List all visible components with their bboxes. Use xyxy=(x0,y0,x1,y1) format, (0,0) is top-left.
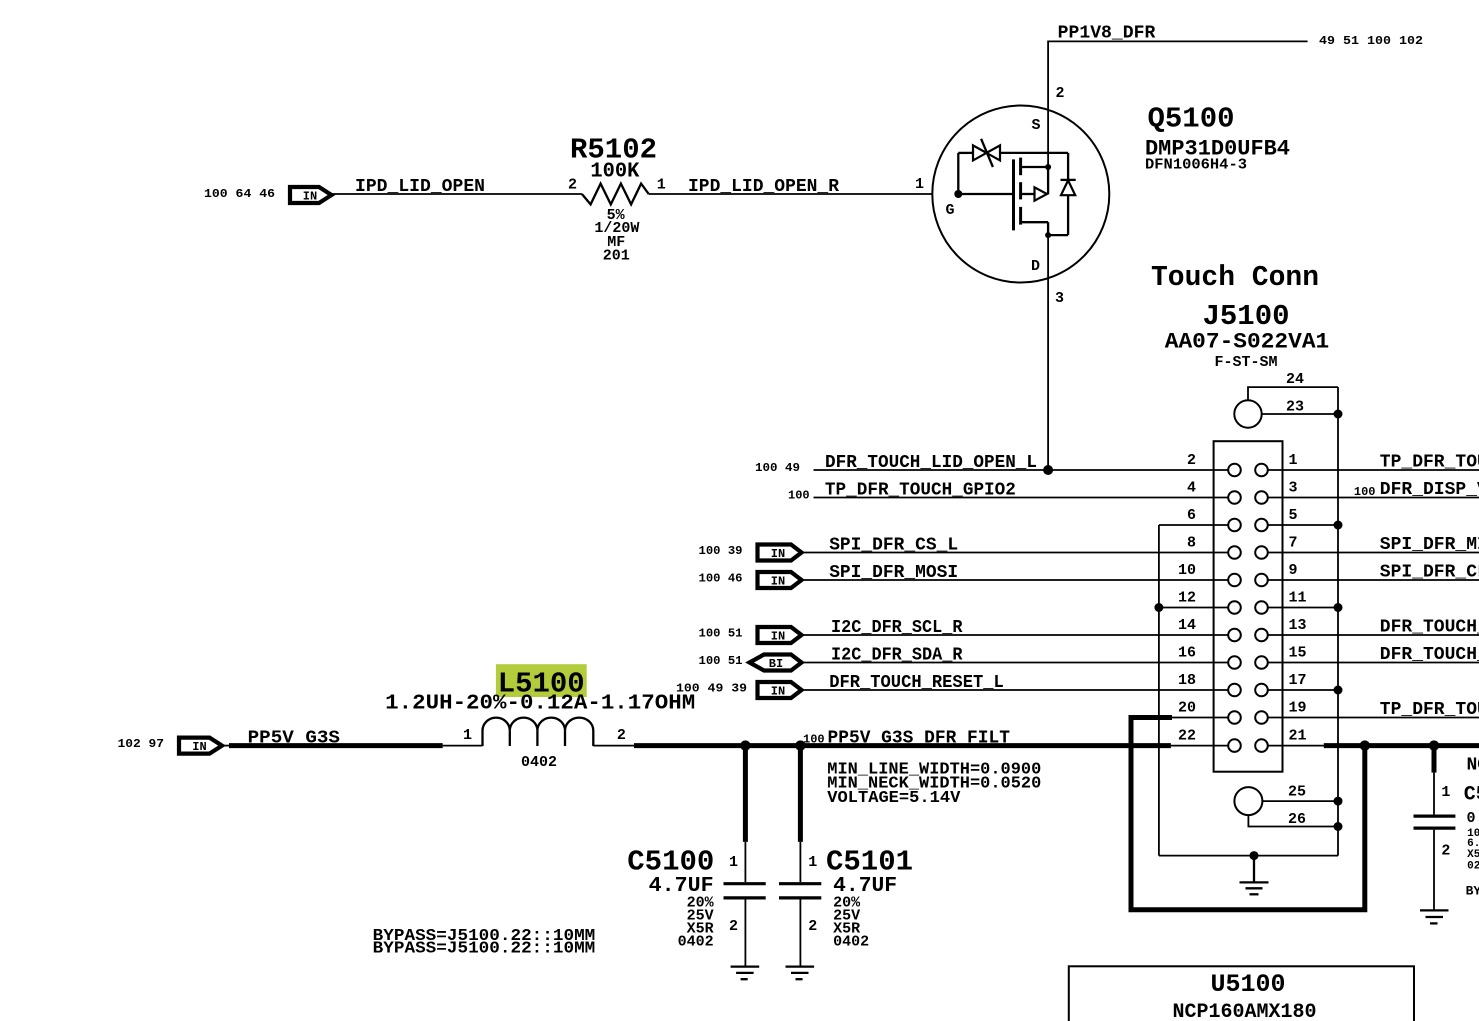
svg-text:TP_DFR_TOUC: TP_DFR_TOUC xyxy=(1380,453,1479,473)
junction pin12 xyxy=(1154,603,1163,612)
svg-text:22: 22 xyxy=(1178,728,1196,745)
branch wire thin xyxy=(744,842,746,882)
svg-text:6.3: 6.3 xyxy=(1467,838,1479,850)
branch wire thick xyxy=(1432,746,1437,773)
junction pin23 xyxy=(1334,410,1343,419)
wire pin 22 thin xyxy=(1171,745,1228,747)
svg-text:2: 2 xyxy=(617,727,626,744)
wire pin 1 TP_DFR_TOUCH xyxy=(1268,469,1479,471)
svg-text:24: 24 xyxy=(1286,371,1304,388)
svg-text:15: 15 xyxy=(1289,645,1307,662)
svg-text:U5100: U5100 xyxy=(1210,970,1285,999)
off-page connector IN (SPI_DFR_CS_L) xyxy=(758,545,802,562)
svg-text:18: 18 xyxy=(1178,672,1196,689)
branch wire thick xyxy=(743,746,748,842)
svg-text:0402: 0402 xyxy=(678,934,714,951)
wire pin 15 DFR_TOUCH xyxy=(1268,662,1479,664)
svg-text:S: S xyxy=(1032,117,1041,134)
svg-text:IN: IN xyxy=(192,740,206,754)
svg-text:D: D xyxy=(1031,258,1040,275)
svg-text:49 51 100 102: 49 51 100 102 xyxy=(1319,34,1423,48)
svg-text:NCP160AMX180: NCP160AMX180 xyxy=(1172,1001,1316,1021)
svg-text:DFR_TOUCH_LID_OPEN_L: DFR_TOUCH_LID_OPEN_L xyxy=(825,453,1037,473)
svg-text:G: G xyxy=(946,202,955,219)
svg-text:0.1: 0.1 xyxy=(1467,810,1479,827)
transistor Q5100 xyxy=(915,85,1109,307)
svg-text:11: 11 xyxy=(1289,590,1307,607)
body diode xyxy=(1067,153,1069,180)
svg-text:100: 100 xyxy=(788,489,810,503)
svg-text:IN: IN xyxy=(771,575,785,589)
junction C5102 xyxy=(1429,740,1439,750)
svg-text:23: 23 xyxy=(1286,399,1304,416)
svg-text:1: 1 xyxy=(1289,452,1298,469)
gate junction dot xyxy=(954,190,962,198)
svg-text:F-ST-SM: F-ST-SM xyxy=(1214,354,1277,371)
junction pin17 xyxy=(1334,686,1343,695)
wire PP5V_G3S thick xyxy=(222,745,235,747)
ground C5101 xyxy=(786,967,815,980)
svg-text:17: 17 xyxy=(1289,672,1307,689)
wire pin 10 SPI_DFR_MOSI xyxy=(802,579,1229,581)
left aux vertical wire (pins 6,12) xyxy=(1158,525,1160,856)
svg-text:IPD_LID_OPEN: IPD_LID_OPEN xyxy=(355,177,485,197)
svg-text:BI: BI xyxy=(769,657,783,671)
off-page connector IN (I2C_DFR_SCL_R) xyxy=(758,627,802,644)
thick wire pin 20 loop xyxy=(1131,718,1365,910)
svg-text:AA07-S022VA1: AA07-S022VA1 xyxy=(1165,330,1330,355)
right pin numbers xyxy=(1289,452,1307,745)
svg-text:BYP: BYP xyxy=(1466,883,1479,898)
ground collector wire xyxy=(1159,855,1338,857)
svg-text:2: 2 xyxy=(808,918,817,935)
svg-text:X5R: X5R xyxy=(1467,849,1479,861)
svg-text:DFR_TOUCH_RESET_L: DFR_TOUCH_RESET_L xyxy=(829,673,1004,693)
svg-text:1: 1 xyxy=(729,854,738,871)
svg-text:100 51: 100 51 xyxy=(699,654,743,668)
svg-text:1: 1 xyxy=(808,854,817,871)
highlight refdes L5100 xyxy=(496,664,587,697)
svg-text:4: 4 xyxy=(1187,480,1196,497)
wire PP1V8_DFR xyxy=(1048,41,1308,167)
svg-text:12: 12 xyxy=(1178,590,1196,607)
svg-text:TP_DFR_TOUCH_GPIO2: TP_DFR_TOUCH_GPIO2 xyxy=(825,481,1016,501)
wire PP5V_G3S_DFR_FILT thick xyxy=(634,743,1171,748)
svg-text:100 39: 100 39 xyxy=(699,544,743,558)
svg-text:201: 201 xyxy=(603,248,630,265)
svg-text:SPI_DFR_CLK: SPI_DFR_CLK xyxy=(1380,563,1479,583)
gate plate xyxy=(1012,159,1015,230)
svg-text:I2C_DFR_SDA_R: I2C_DFR_SDA_R xyxy=(831,646,963,666)
junction thick loop to PP5V_G3S_DFR_FILT xyxy=(1360,740,1370,750)
svg-text:0402: 0402 xyxy=(833,934,869,951)
svg-text:SPI_DFR_CS_L: SPI_DFR_CS_L xyxy=(829,536,958,556)
svg-text:2: 2 xyxy=(1441,842,1450,859)
source tap xyxy=(1021,166,1049,168)
svg-text:Touch Conn: Touch Conn xyxy=(1151,261,1319,294)
zigzag body xyxy=(582,184,649,205)
shield bus vertical wire xyxy=(1337,387,1339,855)
connector pin contacts xyxy=(1228,464,1268,752)
wire pin 14 I2C_DFR_SCL_R xyxy=(802,634,1229,636)
IC U5100 box xyxy=(1069,966,1414,1021)
svg-text:3: 3 xyxy=(1055,290,1064,307)
wire PP5V_G3S thin to L5100 xyxy=(443,745,483,747)
svg-text:14: 14 xyxy=(1178,617,1196,634)
svg-text:3: 3 xyxy=(1289,480,1298,497)
shield contact bottom (pins 25/26) xyxy=(1234,787,1262,815)
wire to ground xyxy=(744,900,746,967)
svg-text:20: 20 xyxy=(1178,700,1196,717)
junction drain to pin 2 xyxy=(1043,465,1053,475)
svg-text:SPI_DFR_MIS: SPI_DFR_MIS xyxy=(1380,535,1479,555)
left pin numbers xyxy=(1178,452,1196,745)
off-page connector BI (I2C_DFR_SDA_R) xyxy=(750,655,802,672)
wire pin 4 TP_DFR_TOUCH_GPIO2 xyxy=(814,497,1229,499)
svg-text:1: 1 xyxy=(657,177,666,194)
gate lead xyxy=(958,193,1013,195)
ground C5100 xyxy=(731,967,760,980)
branch wire thick xyxy=(798,746,803,842)
wire IPD_LID_OPEN_R xyxy=(649,193,959,195)
wire pin 5 xyxy=(1268,524,1338,526)
svg-text:C5101: C5101 xyxy=(826,846,913,879)
svg-text:102 97: 102 97 xyxy=(118,737,165,751)
wire pin 11 xyxy=(1268,607,1338,609)
junction pin11 xyxy=(1334,603,1343,612)
svg-text:SPI_DFR_MOSI: SPI_DFR_MOSI xyxy=(829,563,958,583)
wire pin 13 DFR_TOUCH xyxy=(1268,634,1479,636)
svg-text:100 51: 100 51 xyxy=(699,627,743,641)
body circle xyxy=(932,106,1109,283)
wire pin 21 PP5V_G3S_DFR_FILT right xyxy=(1268,745,1325,747)
svg-text:IPD_LID_OPEN_R: IPD_LID_OPEN_R xyxy=(688,177,839,197)
svg-text:2: 2 xyxy=(568,177,577,194)
wire pin 9 SPI_DFR_CLK xyxy=(1268,579,1479,581)
svg-text:1: 1 xyxy=(915,176,924,193)
svg-text:100 46: 100 46 xyxy=(699,572,743,586)
wire pin 8 SPI_DFR_CS_L xyxy=(802,552,1229,554)
svg-text:Q5100: Q5100 xyxy=(1148,103,1235,136)
branch wire thin xyxy=(799,842,801,882)
ground C5102 xyxy=(1420,910,1449,923)
connector J5100 body xyxy=(1214,441,1283,772)
svg-text:9: 9 xyxy=(1289,562,1298,579)
plates xyxy=(779,882,821,885)
svg-text:19: 19 xyxy=(1289,700,1307,717)
svg-text:100: 100 xyxy=(803,733,825,747)
svg-text:PP1V8_DFR: PP1V8_DFR xyxy=(1058,24,1156,44)
svg-text:2: 2 xyxy=(1056,85,1065,102)
svg-text:1: 1 xyxy=(1441,784,1450,801)
svg-text:DFR_TOUCH_I: DFR_TOUCH_I xyxy=(1380,618,1479,638)
svg-text:PP5V_G3S_DFR_FILT: PP5V_G3S_DFR_FILT xyxy=(828,729,1011,749)
svg-text:DFR_DISP_VC: DFR_DISP_VC xyxy=(1380,480,1479,500)
plates xyxy=(724,882,766,885)
wire pin 2 DFR_TOUCH_LID_OPEN_L xyxy=(814,469,1229,471)
wire pin 24 xyxy=(1248,387,1338,400)
wire to ground xyxy=(799,900,801,967)
capacitor C5100 xyxy=(627,746,765,967)
junction ground xyxy=(1250,851,1259,860)
off-page connector IN (DFR_TOUCH_RESET_L) xyxy=(758,682,802,699)
junction C5100 xyxy=(740,740,750,750)
wire drain to pin2 row xyxy=(1047,235,1049,470)
wire pin 20 xyxy=(1172,717,1228,719)
svg-text:1.2UH-20%-0.12A-1.17OHM: 1.2UH-20%-0.12A-1.17OHM xyxy=(385,693,695,716)
wire pin 19 TP_DFR_TOUCH xyxy=(1268,717,1479,719)
ESD diode pair xyxy=(958,152,973,154)
svg-text:BYPASS=J5100.22::10MM: BYPASS=J5100.22::10MM xyxy=(373,940,596,959)
winding xyxy=(483,718,594,746)
svg-text:26: 26 xyxy=(1288,811,1306,828)
svg-text:I2C_DFR_SCL_R: I2C_DFR_SCL_R xyxy=(831,618,963,638)
drain tap xyxy=(1021,221,1049,223)
svg-text:C5100: C5100 xyxy=(627,846,714,879)
svg-text:100 64 46: 100 64 46 xyxy=(204,187,275,201)
svg-text:7: 7 xyxy=(1289,535,1298,552)
branch wire thin xyxy=(1433,773,1435,815)
wire pin 12 xyxy=(1159,607,1228,609)
svg-text:IN: IN xyxy=(771,630,785,644)
resistor R5102 xyxy=(568,134,666,265)
svg-text:C51: C51 xyxy=(1464,784,1479,807)
wire pin 7 SPI_DFR_MISO xyxy=(1268,552,1479,554)
svg-text:IN: IN xyxy=(771,547,785,561)
capacitor C5102 (partial at right edge) xyxy=(1414,740,1479,910)
off-page connector IN (IPD_LID_OPEN) xyxy=(290,187,332,204)
svg-text:100 49: 100 49 xyxy=(755,461,800,475)
svg-text:1: 1 xyxy=(463,727,472,744)
svg-text:J5100: J5100 xyxy=(1202,300,1289,333)
svg-text:IN: IN xyxy=(771,685,785,699)
wire IPD_LID_OPEN xyxy=(332,193,582,195)
svg-text:13: 13 xyxy=(1289,617,1307,634)
svg-text:10: 10 xyxy=(1178,562,1196,579)
wire pin 3 DFR_DISP xyxy=(1268,497,1479,499)
svg-text:VOLTAGE=5.14V: VOLTAGE=5.14V xyxy=(827,789,961,808)
wire pin 25 xyxy=(1262,800,1338,802)
svg-text:IN: IN xyxy=(303,190,317,204)
svg-text:TP_DFR_TOUC: TP_DFR_TOUC xyxy=(1380,700,1479,720)
svg-text:5: 5 xyxy=(1289,507,1298,524)
svg-text:21: 21 xyxy=(1289,728,1307,745)
wire to ground xyxy=(1433,830,1435,911)
channel dashes xyxy=(1019,158,1022,176)
svg-text:100: 100 xyxy=(1354,485,1376,499)
svg-text:2: 2 xyxy=(729,918,738,935)
junction pin26 xyxy=(1334,822,1343,831)
svg-text:020: 020 xyxy=(1467,860,1479,872)
svg-text:100K: 100K xyxy=(590,161,639,184)
off-page connector IN (SPI_DFR_MOSI) xyxy=(758,572,802,589)
wire pin 23 xyxy=(1262,413,1338,415)
svg-text:0402: 0402 xyxy=(521,754,557,771)
junction pin5 xyxy=(1334,521,1343,530)
plates xyxy=(1414,814,1456,817)
svg-text:25: 25 xyxy=(1288,784,1306,801)
svg-text:16: 16 xyxy=(1178,645,1196,662)
shield contact top (pins 24/23) xyxy=(1234,400,1261,427)
svg-text:NC: NC xyxy=(1467,756,1479,776)
svg-text:DFN1006H4-3: DFN1006H4-3 xyxy=(1145,157,1247,174)
inductor L5100 xyxy=(385,664,695,771)
wire pin 16 I2C_DFR_SDA_R xyxy=(802,662,1229,664)
wire pin 6 xyxy=(1159,524,1228,526)
body tap arrow xyxy=(1021,193,1035,195)
junction pin25 xyxy=(1334,797,1343,806)
ground symbol J5100 xyxy=(1240,856,1269,895)
wire pin 18 DFR_TOUCH_RESET_L xyxy=(802,689,1229,691)
junction C5101 xyxy=(795,740,805,750)
wire pin 17 xyxy=(1268,689,1338,691)
svg-text:DFR_TOUCH_R: DFR_TOUCH_R xyxy=(1380,645,1479,665)
svg-text:2: 2 xyxy=(1187,452,1196,469)
gate riser xyxy=(957,153,959,194)
wire PP5V_G3S_DFR_FILT thin xyxy=(593,745,637,747)
off-page connector IN (PP5V_G3S) xyxy=(179,738,222,754)
capacitor C5101 xyxy=(779,746,913,967)
wire pin 26 xyxy=(1248,815,1338,826)
svg-text:6: 6 xyxy=(1187,507,1196,524)
svg-text:8: 8 xyxy=(1187,535,1196,552)
